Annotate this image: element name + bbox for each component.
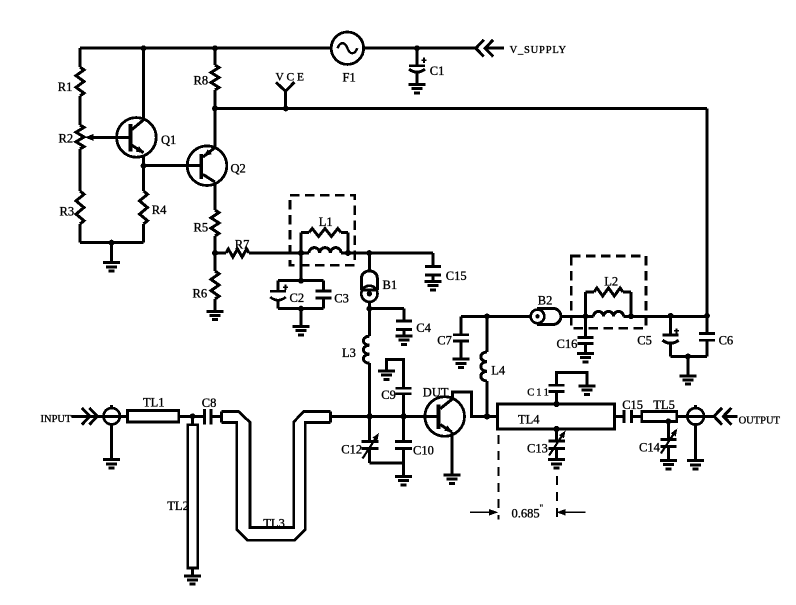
ground (C11) — [578, 386, 595, 394]
capacitor C13 (variable) — [548, 429, 565, 460]
svg-text:C10: C10 — [413, 444, 434, 458]
source F1 — [331, 32, 363, 64]
capacitor C12 (variable) — [362, 416, 379, 463]
svg-text:R4: R4 — [152, 203, 167, 217]
ferrite bead B2 — [531, 308, 561, 324]
svg-text:R7: R7 — [235, 237, 250, 251]
wire: Q1 collector rail — [142, 48, 145, 119]
wire: TL3 to C12 node — [331, 415, 425, 418]
svg-text:Q1: Q1 — [161, 133, 176, 147]
dimension: arrows 0.685 — [470, 509, 586, 515]
svg-text:C 1 1: C 1 1 — [527, 387, 549, 398]
transmission line TL4 — [498, 404, 615, 429]
capacitor C5 (polarized) — [663, 316, 680, 357]
wire: C12/C10 bottom — [370, 462, 404, 465]
wire: L2 to C5/C6 — [631, 315, 707, 318]
node: top rail / R8 — [212, 45, 218, 51]
wire: R7 leads — [215, 252, 301, 255]
wire: right rail down — [706, 109, 709, 316]
wire: C2/C3 bottom rail — [278, 307, 324, 310]
ground (output connector) — [687, 461, 704, 469]
ground (C4) — [396, 336, 413, 344]
node: C12 / L3 junction — [367, 413, 373, 419]
svg-text:R5: R5 — [194, 221, 209, 235]
svg-text:TL2: TL2 — [167, 499, 189, 513]
wire: TL1 to C8 — [179, 415, 204, 418]
ground (input connector) — [103, 460, 120, 468]
node: C5 tap — [668, 313, 674, 319]
svg-text:C12: C12 — [341, 442, 362, 456]
svg-text:C8: C8 — [202, 396, 217, 410]
ground (C14) — [660, 460, 677, 468]
inductor L2 (parallel R-L) — [586, 288, 632, 316]
capacitor C14 (variable) — [660, 421, 677, 460]
svg-text:C15: C15 — [622, 398, 643, 412]
wire: B1 to C4 — [369, 307, 404, 310]
wire: C2/C3 feed — [300, 253, 303, 281]
node: C2/C3 bottom tap — [298, 306, 304, 312]
ground (C2/C3) — [300, 309, 303, 327]
node: Q1 emitter / Q2 base junction — [141, 163, 147, 169]
wire: C8 to TL3 — [211, 415, 222, 418]
resistor R8 — [211, 65, 219, 90]
node: L4 top — [484, 314, 490, 320]
resistor R4 — [140, 191, 148, 224]
svg-text:R3: R3 — [60, 205, 75, 219]
capacitor C15 (right, series) — [624, 410, 631, 423]
wire: Q2 emitter up — [214, 109, 217, 148]
capacitor C6 — [699, 316, 715, 357]
svg-text:": " — [540, 503, 544, 513]
node: bias ground tap — [109, 240, 115, 246]
resistor R5 — [211, 210, 219, 236]
node: C1 tap — [414, 45, 420, 51]
wire: input line through connector to TL1 — [72, 415, 128, 418]
resistor R2 (pot) — [76, 125, 84, 149]
inductor L1 (parallel R-L) — [301, 229, 348, 254]
terminal: OUTPUT chevron — [714, 408, 731, 425]
capacitor C15 (left) — [425, 253, 441, 281]
transmission line TL5 — [642, 412, 677, 422]
svg-text:B1: B1 — [383, 278, 398, 292]
transmission line TL1 — [128, 410, 179, 422]
node: TL2 tap — [190, 413, 196, 419]
capacitor C1 (polarized) — [409, 48, 427, 84]
svg-text:C14: C14 — [639, 440, 661, 454]
svg-text:V C E: V C E — [276, 71, 305, 83]
wire: C15 to TL5 — [633, 415, 642, 418]
wire: R6 stem — [214, 253, 217, 311]
node: C14 tap — [666, 419, 672, 425]
node: R8 / VCE rail / Q2 emitter — [212, 106, 218, 112]
node: L2 left / C16 — [583, 314, 589, 320]
wire: VCE rail — [215, 107, 707, 110]
node: top rail / Q1 collector — [141, 45, 147, 51]
node: L1 right — [345, 250, 351, 256]
wire: DUT collector loop — [452, 392, 497, 417]
ground (C9) — [378, 371, 395, 379]
wire: left bias rail — [79, 48, 82, 242]
svg-text:C7: C7 — [437, 333, 452, 347]
resistor R3 — [76, 191, 84, 224]
svg-text:C5: C5 — [637, 334, 652, 348]
wire: bias bottom — [80, 241, 144, 244]
inductor L2 dashed enclosure — [571, 256, 646, 328]
ground (C7) — [453, 359, 470, 367]
wire: C7/L4/B2 line — [461, 315, 531, 318]
wire: B2 to L2 — [561, 315, 586, 318]
transmission line TL3 (hairpin) — [222, 411, 331, 540]
terminal: V_SUPPLY chevron — [476, 40, 493, 57]
ground (C13) — [548, 460, 565, 468]
wire: DUT emitter — [450, 432, 453, 475]
terminal: INPUT chevron — [82, 408, 98, 425]
node: B1 out / C4 / L3 — [367, 306, 373, 312]
svg-text:C16: C16 — [557, 337, 578, 351]
ground (TL2) — [184, 576, 201, 584]
inductor L3 — [363, 309, 369, 417]
svg-text:L3: L3 — [342, 346, 356, 360]
capacitor C2 (polarized) — [270, 281, 288, 309]
node: L1 left — [298, 250, 304, 256]
svg-text:C1: C1 — [430, 64, 445, 78]
svg-text:0.685: 0.685 — [512, 507, 540, 521]
node: C9 / C10 junction — [401, 413, 407, 419]
capacitor C11 — [549, 373, 587, 404]
ground (C5/C6) — [687, 357, 690, 376]
capacitor C7 — [453, 316, 469, 359]
svg-text:V_SUPPLY: V_SUPPLY — [510, 45, 567, 56]
svg-text:R2: R2 — [59, 131, 74, 145]
transistor DUT — [425, 397, 465, 437]
capacitor C4 — [396, 309, 412, 336]
node: C13 tap on TL4 — [554, 426, 560, 432]
wire: TL5 through output connector — [677, 415, 714, 418]
node: VCE tap — [283, 106, 289, 112]
ground (C15 left) — [425, 281, 442, 289]
node: C6 / right rail — [704, 313, 710, 319]
svg-text:R6: R6 — [193, 287, 208, 301]
svg-text:TL1: TL1 — [143, 396, 165, 410]
svg-text:R1: R1 — [58, 80, 73, 94]
svg-text:C9: C9 — [381, 388, 396, 402]
resistor R6 — [211, 271, 219, 299]
wire: Q1 base with pot arrow — [88, 136, 117, 139]
wire: R8 rail — [214, 48, 217, 108]
wire: C5/C6 bottom — [671, 355, 707, 358]
transmission line TL2 — [188, 416, 198, 576]
wire: OUTPUT stub — [723, 415, 737, 418]
dimension: dashed extension lines — [499, 435, 557, 520]
wire: TL4 to C15 (right) — [615, 415, 623, 418]
ground (C1) — [409, 84, 426, 92]
wire: top supply rail — [80, 47, 476, 50]
node: L2 right — [628, 314, 634, 320]
node: L4 / collector / TL4 — [484, 413, 490, 419]
transistor Q2 — [187, 146, 227, 186]
svg-text:C13: C13 — [527, 441, 548, 455]
svg-text:L4: L4 — [491, 364, 506, 378]
ground (DUT emitter) — [443, 475, 460, 483]
transistor Q1 — [117, 118, 157, 158]
wire: V_SUPPLY stub — [485, 47, 504, 50]
wire: Q2 collector down — [214, 182, 217, 253]
resistor R7 — [226, 249, 249, 257]
svg-text:DUT: DUT — [423, 385, 449, 399]
svg-text:L2: L2 — [604, 275, 618, 289]
ground (C16) — [577, 353, 594, 361]
capacitor C9 — [387, 360, 412, 417]
resistor R1 — [76, 67, 84, 96]
svg-text:Q2: Q2 — [231, 162, 246, 176]
wire: Q1 emitter rail — [142, 156, 145, 243]
svg-text:TL3: TL3 — [263, 516, 285, 530]
svg-text:C4: C4 — [416, 321, 431, 335]
capacitor C16 — [578, 316, 594, 353]
capacitor C10 — [395, 416, 412, 463]
node: C11 tap on TL4 — [554, 401, 560, 407]
node: C2/C3 top tap — [298, 278, 304, 284]
wire: L1 to B1/C15 node — [348, 252, 433, 255]
connector (output) — [687, 405, 704, 460]
symbol: VCE probe — [276, 82, 294, 108]
wire: C2/C3 top rail — [278, 279, 324, 282]
ferrite bead B1 — [361, 253, 377, 309]
capacitor C8 (series) — [205, 409, 212, 425]
svg-text:C3: C3 — [334, 292, 349, 306]
ground (R6) — [207, 311, 224, 319]
svg-text:C15: C15 — [446, 269, 467, 283]
svg-text:C2: C2 — [290, 291, 305, 305]
node: C5/C6 ground tap — [685, 354, 691, 360]
wire: Q1 emitter to Q2 base — [144, 164, 200, 167]
svg-text:OUTPUT: OUTPUT — [739, 415, 781, 426]
svg-text:INPUT: INPUT — [41, 414, 73, 425]
node: B1 junction — [367, 250, 373, 256]
svg-text:F1: F1 — [343, 70, 356, 84]
svg-text:R8: R8 — [194, 74, 209, 88]
connector (input) — [104, 405, 120, 459]
svg-text:B2: B2 — [538, 294, 553, 308]
capacitor C3 — [316, 281, 332, 309]
inductor L4 — [481, 316, 487, 416]
svg-text:TL4: TL4 — [518, 412, 540, 426]
ground (bias network) — [110, 243, 113, 263]
node: R5/R6/R7 junction — [212, 250, 218, 256]
svg-text:TL5: TL5 — [653, 398, 675, 412]
svg-text:L1: L1 — [319, 215, 333, 229]
inductor L1 dashed enclosure — [290, 195, 355, 265]
ground (C10) — [402, 463, 405, 476]
svg-text:C6: C6 — [719, 334, 734, 348]
